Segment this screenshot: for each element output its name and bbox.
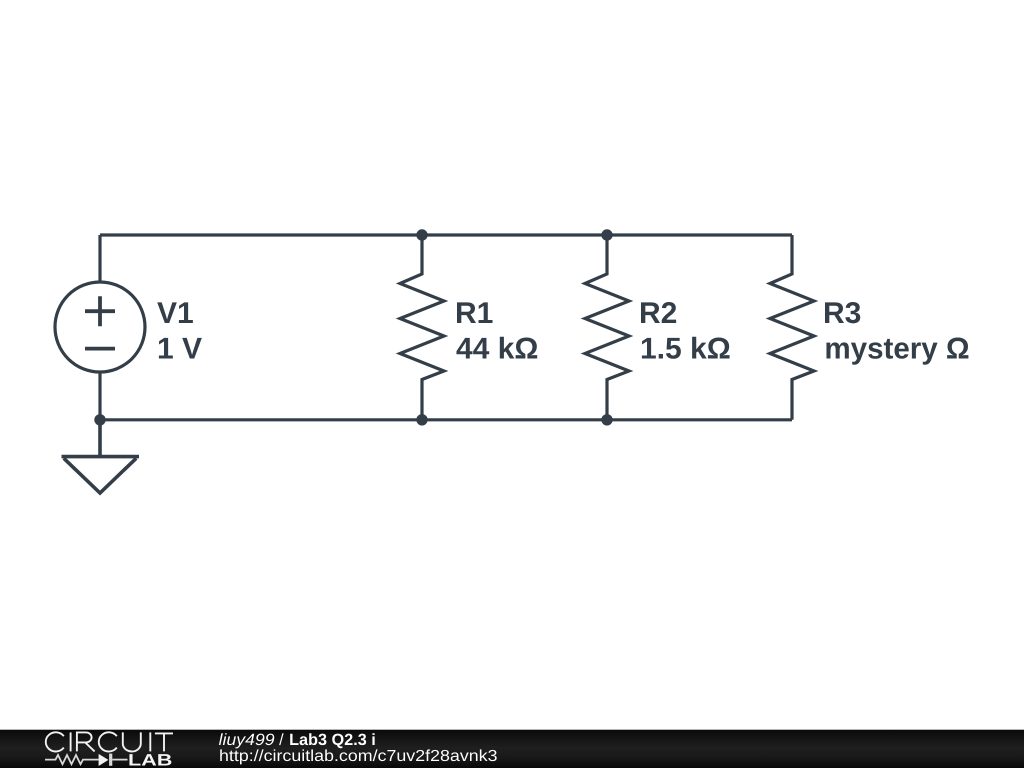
wire bottom net [100,418,792,421]
CircuitLab logo resistor-diode drawing [45,754,128,766]
label V1 name [157,302,193,323]
node bottom R1 junction [416,414,427,425]
resistor R1 [400,235,444,420]
label R2 value [642,337,730,359]
wire top net [100,233,792,236]
label V1 value [159,338,202,359]
CircuitLab logo diode triangle [99,754,109,766]
footer title name [290,733,374,748]
resistor R3 [770,235,814,420]
label R3 name [825,302,860,323]
footer title separator [279,733,284,745]
label R3 value [826,338,968,365]
node top R1 junction [416,229,427,240]
node bottom R2 junction [601,414,612,425]
footer bar [0,730,1024,768]
label R1 value [456,337,537,359]
voltage source V1 [55,235,145,420]
footer title author [219,733,274,748]
footer url line [220,749,496,764]
label R1 name [457,302,493,323]
CircuitLab logo LAB word [129,754,171,765]
node ground junction [94,414,105,425]
resistor R2 [585,235,629,420]
node top R2 junction [601,229,612,240]
CircuitLab logo CIRCUIT word [46,732,173,751]
ground [62,420,140,493]
label R2 name [641,302,676,323]
